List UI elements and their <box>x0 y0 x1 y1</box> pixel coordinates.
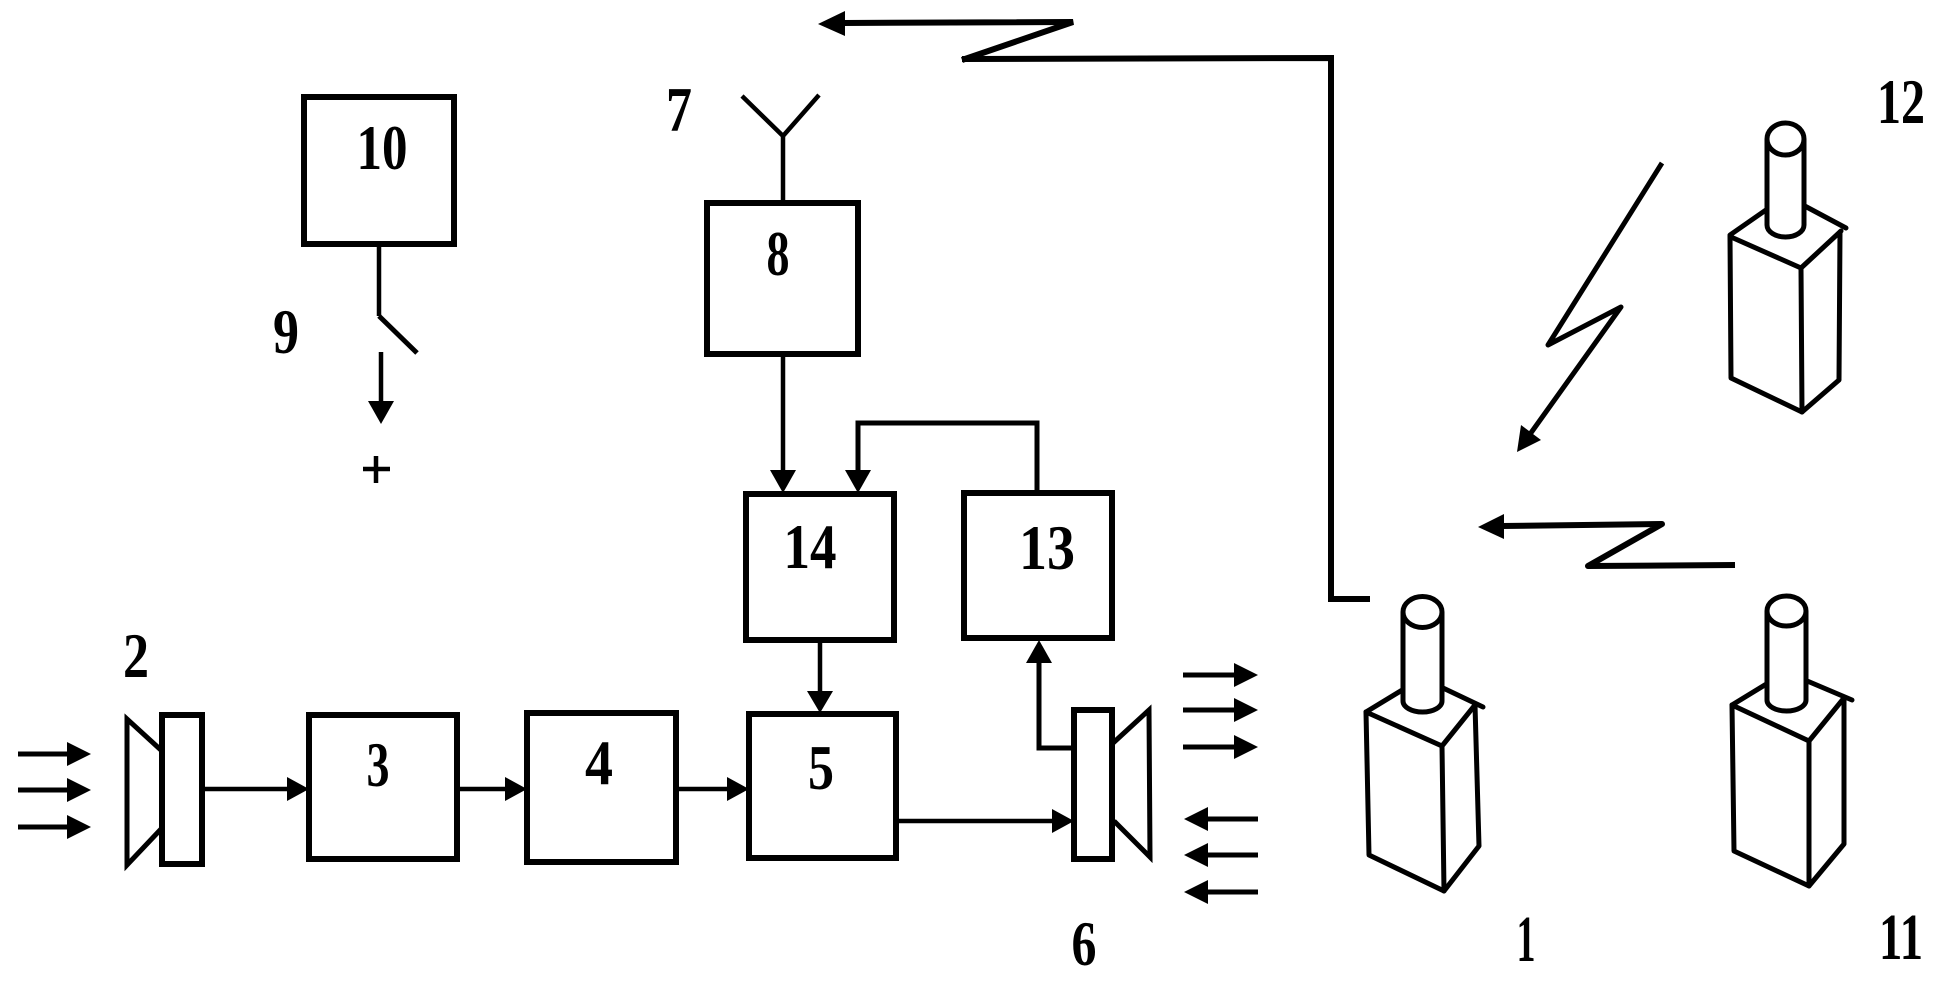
lightning bolt to handset with arrow <box>1528 163 1662 437</box>
svg-text:14: 14 <box>784 512 837 582</box>
handset 11 antenna cylinder <box>1767 611 1806 711</box>
handset 12 prism body <box>1730 196 1846 412</box>
box 14 <box>746 494 894 640</box>
svg-text:8: 8 <box>767 219 790 289</box>
handset 11 prism body <box>1732 672 1852 886</box>
wire mic to 3 with arrow <box>202 787 291 792</box>
switch 9 wire from box 10 <box>377 244 382 316</box>
svg-text:11: 11 <box>1879 901 1923 974</box>
svg-text:13: 13 <box>1019 513 1075 583</box>
microphone 2 body <box>162 715 202 864</box>
microphone 2 horn <box>127 719 162 865</box>
svg-text:1: 1 <box>1517 903 1536 976</box>
box 10 <box>304 97 454 244</box>
svg-text:7: 7 <box>666 75 692 145</box>
svg-text:4: 4 <box>585 728 613 798</box>
speaker 6 horn <box>1112 710 1150 857</box>
output sound arrows right of speaker <box>1183 673 1235 678</box>
incoming sound arrows right of speaker <box>1207 817 1258 822</box>
arrow below switch <box>379 352 384 403</box>
box 8 <box>707 203 858 354</box>
wire feedback loop 13 to 14 with arrow <box>858 423 1037 493</box>
svg-text:5: 5 <box>808 733 834 803</box>
handset 1 antenna cylinder <box>1403 612 1442 712</box>
speaker 6 body <box>1074 710 1112 859</box>
switch 9 blade <box>379 316 417 353</box>
handset 1 prism body <box>1366 678 1483 891</box>
svg-text:9: 9 <box>273 297 299 367</box>
antenna 7 <box>742 95 819 205</box>
wire speaker to 13 with arrow <box>1039 662 1074 748</box>
box 5 <box>749 714 896 858</box>
box 3 <box>309 715 457 859</box>
wire 5 to speaker 6 with arrow <box>896 819 1056 824</box>
box 4 <box>527 713 676 862</box>
svg-text:10: 10 <box>357 113 408 183</box>
wire radio link zigzag top with arrow <box>843 22 1073 60</box>
svg-text:2: 2 <box>123 621 149 691</box>
radio zigzag to handset 1 with arrow <box>1502 524 1735 566</box>
wire 8 to 14 with arrow <box>781 354 786 473</box>
box 13 <box>964 493 1112 638</box>
svg-text:12: 12 <box>1877 67 1925 137</box>
input sound arrows left <box>18 752 70 757</box>
wire 3 to 4 with arrow <box>457 787 509 792</box>
svg-text:6: 6 <box>1072 909 1097 979</box>
battery plus sign <box>363 456 390 483</box>
wire 14 to 5 with arrow <box>818 640 823 694</box>
wire 4 to 5 with arrow <box>676 787 731 792</box>
handset 12 antenna cylinder <box>1767 139 1804 237</box>
svg-text:3: 3 <box>367 730 390 800</box>
